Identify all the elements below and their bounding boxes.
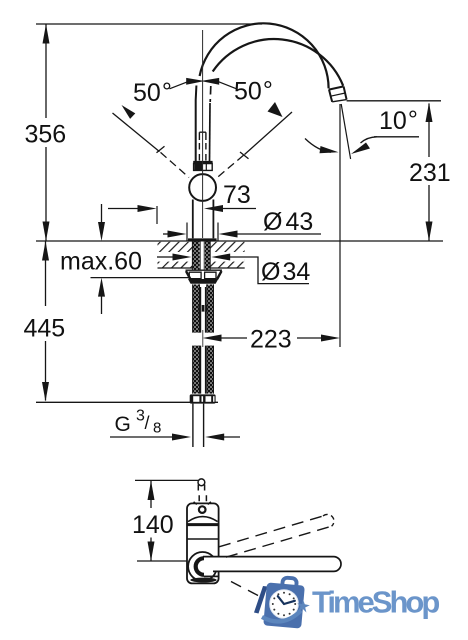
diameter 43 extension lines [187,223,218,241]
svg-text:Ø43: Ø43 [263,208,313,236]
diameter 34 right arrow [211,254,230,261]
base plate [188,238,217,241]
lower view: pin legs [198,485,204,491]
dimension 445 line [45,241,47,401]
swivel ray left dashed [161,152,190,177]
hose coupling [199,305,208,312]
dimension 356 bottom arrow [43,222,50,242]
countertop bottom line [158,267,245,269]
spout pipe left edge [195,86,198,163]
dimension 140 top arrow [148,481,155,500]
cartridge sleeve [199,132,206,140]
lower view: lever [203,557,341,572]
dimension 231 bottom arrow [426,222,433,242]
dimension G38 line right [223,436,240,438]
hose right lower [207,346,214,394]
lower view: screw hole [199,506,206,513]
supply tube [193,404,204,447]
hose end nuts [190,394,216,403]
ball joint [189,174,216,201]
hose right upper [207,284,214,332]
lower view: dimension 140 bottom line [137,560,187,562]
lower view: dashes below lever [231,582,258,596]
spout tip vertical extension [339,104,341,347]
svg-text:/: / [145,413,150,433]
countertop top line [36,240,443,242]
diameter 43 right arrow [219,231,238,238]
centerline upper [202,30,204,238]
dimension 356 line [45,25,47,242]
logo clock hands [278,596,295,604]
lower view: lever left cap [196,558,204,575]
dimension 223 line [221,337,323,339]
dimension 140 line [150,481,152,561]
dimension 140 bottom arrow [148,542,155,562]
spout tip band 1 [329,86,344,89]
dimension 73 line left [108,208,139,210]
spout tip end face [332,100,346,102]
lower view: dimension 140 top line [135,479,198,481]
logo bag [263,576,305,629]
svg-text:50°: 50° [234,77,273,106]
dimension max.60 top arrow [101,204,103,223]
inner tube upper [201,287,206,333]
swivel ray left solid [113,113,160,152]
countertop hatch left [158,242,193,268]
dimension 73 right arrow [204,205,223,212]
locking flange slot left [189,272,201,279]
shank knurl [192,242,210,271]
swivel ray right solid [245,112,293,155]
logo star [297,600,309,613]
dimension G38 left arrow [172,434,191,441]
logo swoosh [262,611,301,622]
locking flange slot right [205,272,216,279]
lower view: dashed lever end cap [323,514,334,526]
shank inner slot [200,242,205,271]
logo dark strip [254,586,268,614]
hose left upper [193,284,200,332]
centerline gap segment [202,330,204,347]
hose-end extension line [36,401,218,403]
dimension 73 line right [222,208,256,210]
locking flange right wedge [217,271,221,279]
svg-text:223: 223 [250,326,292,354]
dimension G38 right arrow [205,434,224,441]
lower view: dome arc [188,517,218,522]
body tube left [192,200,194,239]
dimension 231 line [428,104,430,241]
diameter 34 line right [229,257,309,284]
dimension 223 left arrow [203,335,222,342]
svg-text:G: G [115,413,131,436]
spout pipe right dashes [209,86,212,102]
svg-text:10°: 10° [379,106,418,135]
lower view: base shading [190,578,216,583]
hose left lower [193,346,200,394]
collar dark cell [194,164,203,171]
svg-text:445: 445 [24,315,66,343]
swivel arc right arrow [268,102,283,117]
logo clock face [270,590,299,619]
countertop hatch right [210,242,244,268]
dimension 445 bottom arrow [42,382,49,402]
dimension 445 top arrow [42,241,49,261]
label 10 underline [374,136,419,138]
dimension 223 right arrow [321,335,340,342]
dimension G38 line left [110,436,173,438]
lower view: pivot circle [188,552,217,581]
locking flange left wedge [186,271,190,279]
spout tip angled line 10deg [341,104,350,159]
spout tip sides [329,87,347,102]
collar box [194,164,213,171]
diameter 34 left arrow [173,254,192,261]
top extension line [36,23,262,25]
inner tube lower [201,346,206,394]
diameter 34 line left [157,256,173,258]
svg-text:max.60: max.60 [60,248,142,276]
locking flange top line [186,269,223,271]
svg-text:231: 231 [409,159,451,187]
dimension max.60 bottom arrow [98,278,105,297]
dimension 73 extension line [156,206,158,224]
hatch halo for dim line [158,252,193,262]
shank edges [192,242,210,271]
lower view: body line [187,538,219,540]
dimension 231 top arrow [426,103,433,123]
dimension 73 left arrow [138,205,157,212]
spout tip band 2 [331,93,346,96]
logo clock ticks [272,592,296,616]
svg-text:Ø34: Ø34 [261,258,310,286]
svg-text:TimeShop: TimeShop [312,585,439,620]
swivel arc left arrow [122,105,136,119]
svg-text:8: 8 [153,420,161,437]
collar top [193,161,212,164]
lower view: thick bar [187,523,218,526]
swivel ray left end tick [157,146,165,153]
svg-text:140: 140 [132,511,174,539]
svg-text:50°: 50° [133,78,172,107]
diameter 43 left arrow [168,231,187,238]
dimension max.60 bottom line [91,277,190,279]
arc arrow left of tip [305,139,331,153]
diameter 43 line right [237,233,322,235]
lower view: dashed lever lower line [226,526,332,557]
dimension 356 top arrow [43,24,50,44]
arc arrow right of tip [361,137,378,143]
lower view: cap notches [194,502,211,505]
swivel arc arrows at pipe [170,82,188,89]
locking flange nut [188,279,218,284]
diameter 43 line left [163,233,169,235]
TimeShop logo [254,576,439,629]
hose edges lower [193,346,214,394]
svg-text:356: 356 [25,121,67,149]
swivel ray right end tick [240,152,249,159]
spout pipe right edge [209,103,212,162]
lower view: lever bottom stub [204,575,219,577]
hose edges upper [193,284,214,332]
spout outer arc [200,23,329,88]
lower view: top pin circle [198,479,205,486]
body tube right [212,200,214,239]
extension line spout tip right [347,100,441,102]
swivel ray right dashed [216,155,244,178]
collar divider [205,164,207,171]
lower view: body [187,503,219,583]
lower view: pin lower stubs [199,495,206,501]
lower view: dashed lever upper line [219,516,323,547]
spout inner arc [213,39,344,86]
svg-text:73: 73 [223,181,251,209]
